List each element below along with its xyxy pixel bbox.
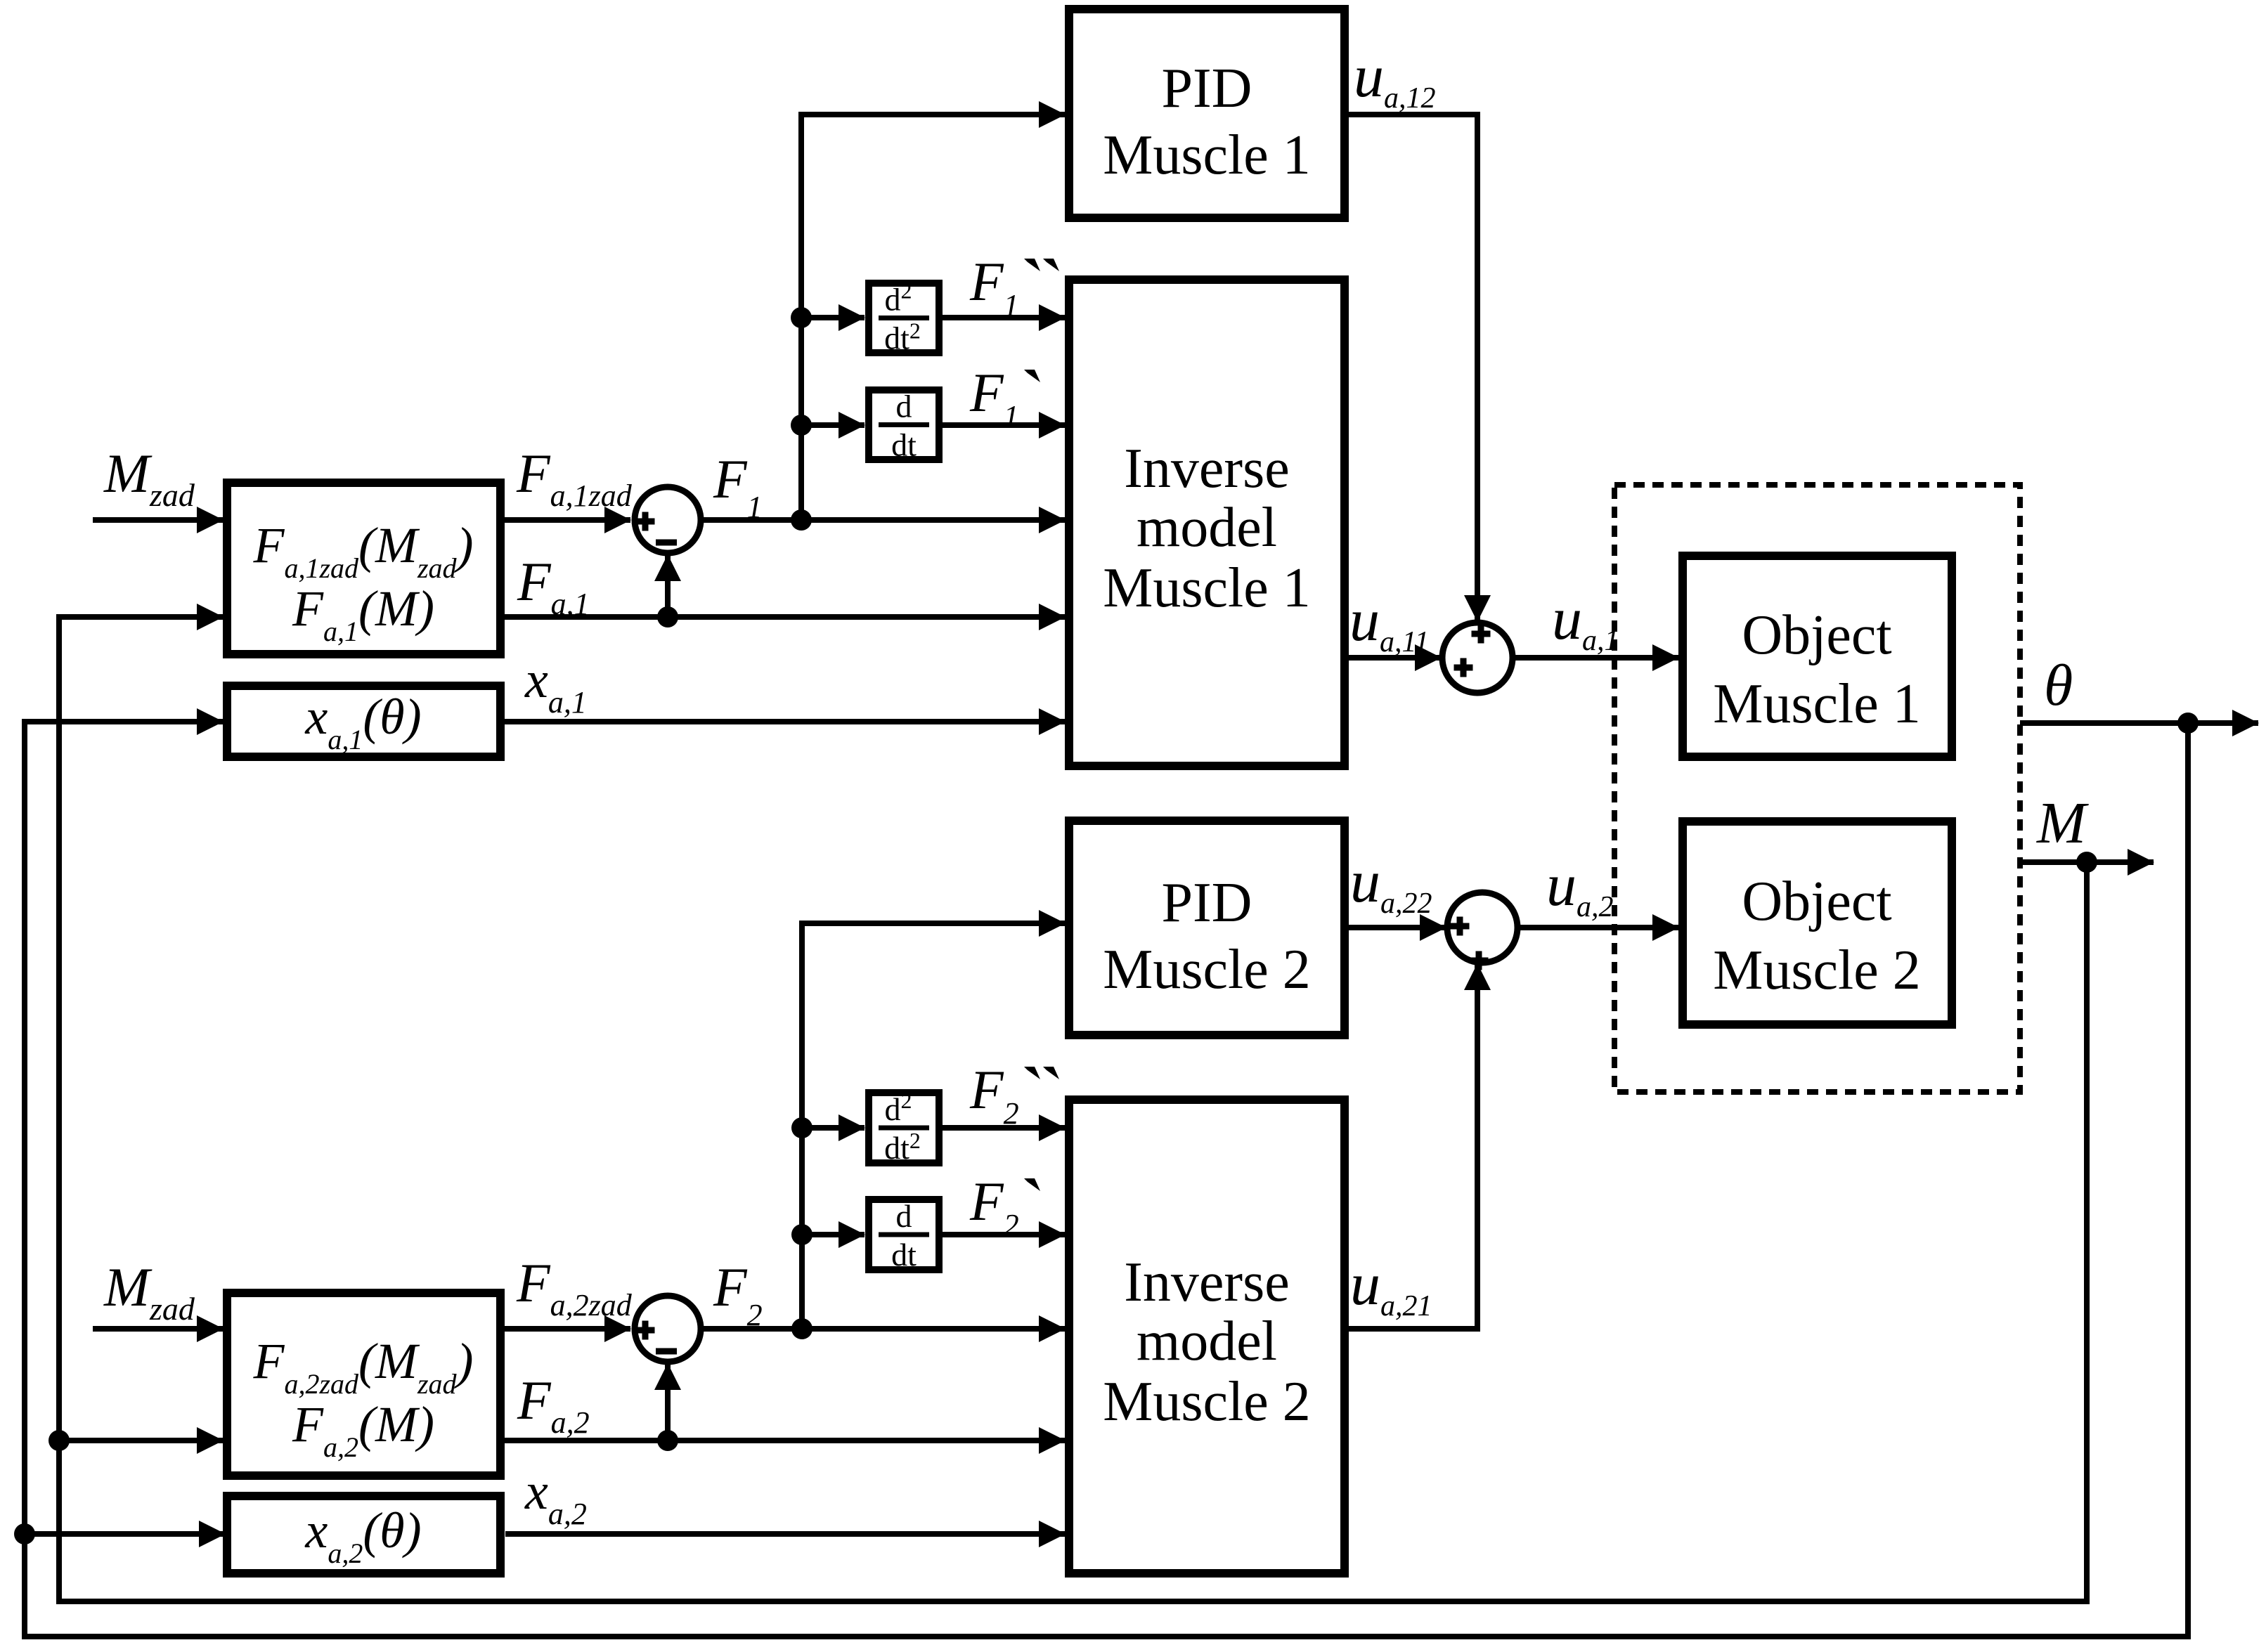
- svg-text:model: model: [1137, 497, 1277, 559]
- svg-text:d: d: [896, 389, 912, 424]
- svg-text:dt: dt: [891, 427, 917, 463]
- svg-text:d: d: [896, 1198, 912, 1234]
- svg-text:Inverse: Inverse: [1124, 438, 1289, 500]
- svg-text:Muscle 1: Muscle 1: [1713, 673, 1921, 735]
- svg-text:M: M: [2036, 791, 2089, 856]
- svg-text:Inverse: Inverse: [1124, 1251, 1289, 1313]
- svg-text:Muscle 1: Muscle 1: [1103, 557, 1311, 619]
- svg-text:Muscle 2: Muscle 2: [1713, 939, 1921, 1001]
- svg-text:Object: Object: [1742, 871, 1891, 932]
- svg-text:PID: PID: [1162, 58, 1252, 119]
- svg-text:Muscle 2: Muscle 2: [1103, 939, 1311, 1001]
- svg-text:model: model: [1137, 1310, 1277, 1372]
- svg-text:dt: dt: [891, 1237, 917, 1273]
- svg-text:PID: PID: [1162, 872, 1252, 934]
- svg-text:Object: Object: [1742, 604, 1891, 666]
- svg-text:θ: θ: [2044, 653, 2073, 718]
- svg-text:Muscle 2: Muscle 2: [1103, 1371, 1311, 1433]
- svg-text:Muscle 1: Muscle 1: [1103, 124, 1311, 186]
